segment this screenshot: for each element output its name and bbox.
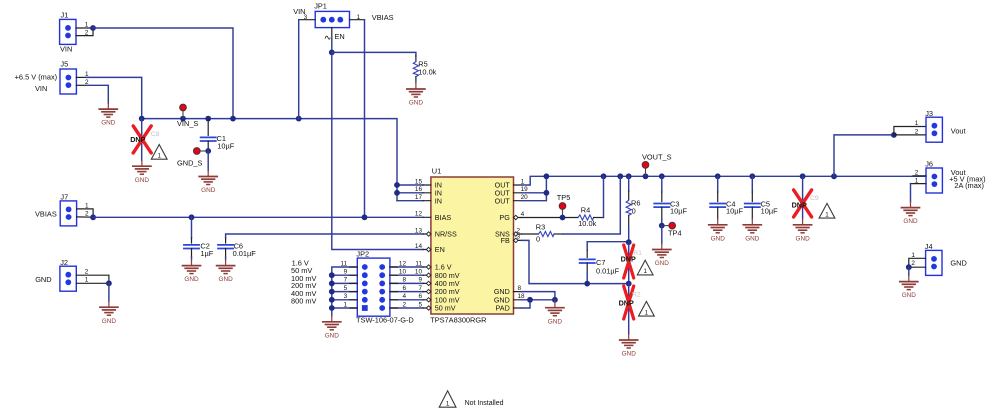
svg-text:GND: GND — [35, 275, 51, 284]
node PG/TP5 junction — [560, 215, 566, 221]
connector J7 — [35, 193, 89, 226]
capacitor C4 — [710, 176, 743, 219]
svg-text:DNP: DNP — [619, 298, 634, 307]
node J2 ground junction — [106, 280, 112, 286]
test point TP4 — [665, 222, 682, 237]
ground at C3 — [653, 244, 671, 268]
svg-text:DNP: DNP — [130, 135, 145, 144]
resistor R5 — [413, 59, 436, 76]
wire J4 pins to ground junction — [909, 258, 926, 267]
wire C1 to ground — [207, 151, 209, 171]
ground at C9 — [794, 219, 812, 243]
node IN pin 16 junction — [394, 190, 400, 196]
svg-text:0.01µF: 0.01µF — [233, 249, 257, 258]
resistor R4 — [578, 205, 597, 227]
ground at C1 — [199, 171, 217, 195]
wire JP1 pin3 to input rail — [299, 19, 316, 21]
ground at J5 pin2 — [99, 103, 117, 127]
node OUT19 junction — [544, 190, 550, 196]
wire J7 pins to BIAS junction — [77, 209, 94, 217]
node rail/J1 junction — [230, 116, 236, 122]
wire J6 pin1 to ground — [911, 183, 927, 185]
svg-text:18: 18 — [518, 293, 526, 300]
test point GND_S — [177, 148, 205, 168]
svg-text:2: 2 — [402, 301, 406, 308]
svg-text:8: 8 — [518, 285, 522, 292]
DNP X over R2 — [624, 286, 634, 319]
svg-text:J5: J5 — [60, 59, 68, 68]
wire input rail VIN — [142, 119, 397, 201]
svg-text:6: 6 — [418, 293, 422, 300]
svg-text:8: 8 — [402, 277, 406, 284]
svg-text:2: 2 — [85, 211, 89, 218]
svg-text:R2: R2 — [632, 291, 641, 298]
capacitor C5 — [745, 176, 778, 219]
svg-text:TP5: TP5 — [557, 193, 571, 202]
wire R5 to ground — [415, 77, 417, 83]
ground at J4 — [900, 276, 918, 300]
svg-text:PG: PG — [499, 213, 510, 222]
svg-text:7: 7 — [344, 277, 348, 284]
node rail/VIN_S junction — [180, 116, 186, 122]
wire PG line — [522, 217, 579, 219]
node J4 ground junction — [906, 264, 912, 270]
node C3/TP4 junction — [659, 223, 665, 229]
svg-text:R4: R4 — [581, 205, 590, 214]
svg-text:1: 1 — [344, 301, 348, 308]
svg-text:VBIAS: VBIAS — [35, 209, 57, 218]
op-amp U1 TPS7A8300RGR body — [430, 166, 513, 324]
svg-text:R1: R1 — [633, 250, 642, 257]
svg-text:NR/SS: NR/SS — [435, 230, 457, 239]
JP2 left pin numbers — [341, 260, 348, 308]
svg-text:OUT: OUT — [495, 196, 511, 205]
wire BIAS line to IC pin 12 — [93, 216, 423, 218]
svg-text:FB: FB — [501, 236, 510, 245]
svg-text:J3: J3 — [925, 109, 933, 118]
wire rail drop to U1 IN pins — [397, 185, 423, 201]
svg-text:10.0k: 10.0k — [418, 67, 436, 76]
node BIAS/C2 junction — [189, 214, 195, 220]
svg-text:C8: C8 — [151, 131, 160, 138]
node rail junctions — [544, 173, 837, 179]
svg-text:Vout: Vout — [951, 126, 966, 135]
svg-text:15: 15 — [415, 178, 423, 185]
header JP2 — [356, 249, 414, 324]
connector J3 — [915, 109, 966, 142]
svg-text:5: 5 — [418, 301, 422, 308]
svg-text:DNP: DNP — [792, 200, 807, 209]
svg-text:12: 12 — [415, 211, 423, 218]
svg-text:0: 0 — [632, 207, 636, 216]
wire NR/SS line from C6 to IC pin 13 — [226, 234, 423, 238]
node C1/GND_S junction — [205, 148, 211, 154]
svg-text:TSW-106-07-G-D: TSW-106-07-G-D — [356, 316, 414, 325]
ground at J6 — [902, 202, 920, 226]
U1 right pin names — [494, 181, 511, 313]
wire U1 GND pin18 — [522, 299, 555, 301]
wire J5 pin2 to ground — [76, 85, 108, 103]
svg-text:J6: J6 — [925, 160, 933, 169]
svg-text:9: 9 — [418, 277, 422, 284]
node rail/JP1 junction — [296, 116, 302, 122]
svg-text:1: 1 — [915, 120, 919, 127]
svg-text:VOUT_S: VOUT_S — [642, 153, 672, 162]
not-installed triangle at C9 — [819, 203, 835, 218]
svg-text:2A (max): 2A (max) — [954, 181, 984, 190]
ground at C2 — [183, 260, 201, 284]
svg-text:10µF: 10µF — [761, 207, 778, 216]
svg-text:10: 10 — [399, 269, 407, 276]
svg-text:J1: J1 — [61, 11, 69, 20]
svg-text:VIN: VIN — [60, 44, 72, 53]
resistor R2 (DNP) wire — [628, 284, 630, 334]
ground at JP2 — [323, 316, 341, 340]
wire JP1 pin1 (VBIAS) down to BIAS line — [350, 19, 365, 21]
svg-text:10µF: 10µF — [217, 141, 234, 150]
svg-text:IN: IN — [435, 196, 442, 205]
node rail/C8 junction — [139, 116, 145, 122]
connector J4 — [911, 242, 966, 275]
svg-text:17: 17 — [415, 194, 423, 201]
svg-text:14: 14 — [415, 243, 423, 250]
svg-text:20: 20 — [521, 194, 529, 201]
svg-text:1µF: 1µF — [200, 249, 213, 258]
wire U1 PAD riser — [522, 300, 531, 308]
svg-text:11: 11 — [341, 260, 348, 267]
svg-text:0.01µF: 0.01µF — [596, 266, 620, 275]
ground at C6 — [217, 260, 235, 284]
node EN/R5 junction — [329, 50, 335, 56]
node J7 output junction — [90, 214, 96, 220]
capacitor C3 — [654, 176, 687, 225]
ground at U1 — [546, 302, 564, 326]
wire J5 pin1 to rail — [76, 77, 141, 118]
svg-text:J4: J4 — [925, 242, 933, 251]
wire OUT pin1 to output rail — [522, 176, 927, 185]
svg-text:EN: EN — [435, 245, 445, 254]
resistor R3 — [536, 223, 554, 244]
wire R4 to rail — [594, 217, 604, 219]
U1 right pin stubs — [514, 185, 522, 308]
DNP X over C8 — [133, 126, 151, 153]
svg-text:13: 13 — [415, 227, 423, 234]
wire EN junction to R5 — [332, 52, 416, 56]
capacitor C6 — [218, 242, 256, 260]
wire SNS stub to R3 — [522, 233, 539, 235]
svg-text:PAD: PAD — [496, 304, 510, 313]
jumper JP1 — [293, 2, 393, 41]
wire J6 pin2 stub — [913, 175, 926, 177]
svg-text:J7: J7 — [60, 193, 68, 202]
node J1 output junction — [90, 25, 96, 31]
capacitor C8 (DNP) wire — [141, 119, 143, 161]
svg-text:9: 9 — [344, 269, 348, 276]
ground at R5 — [407, 83, 425, 107]
node R6/R1 junction — [626, 239, 632, 245]
connector J6 — [915, 160, 986, 193]
svg-text:EN: EN — [335, 32, 345, 41]
node R1/R2/FB junction — [626, 281, 632, 287]
svg-text:10: 10 — [415, 269, 423, 276]
svg-text:GND_S: GND_S — [177, 158, 203, 167]
wire EN vertical to IC pin 14 — [332, 52, 423, 249]
svg-text:+6.5 V (max): +6.5 V (max) — [15, 73, 58, 82]
svg-text:C9: C9 — [810, 195, 819, 202]
wire to IC ground — [554, 300, 556, 302]
node IN pin 15 junction — [394, 182, 400, 188]
svg-text:BIAS: BIAS — [435, 213, 452, 222]
U1 left pin names — [435, 181, 460, 313]
svg-text:6: 6 — [402, 285, 406, 292]
ground at J2 — [100, 301, 118, 325]
resistor R1 (DNP) wire — [628, 242, 630, 283]
capacitor C9 (DNP) wire — [802, 176, 804, 219]
U1 left pin stubs — [423, 185, 431, 308]
svg-text:Not Installed: Not Installed — [465, 400, 504, 407]
svg-text:10µF: 10µF — [726, 207, 743, 216]
resistor R6 — [626, 176, 640, 242]
U1 right pin numbers — [517, 178, 529, 300]
svg-text:U1: U1 — [432, 166, 441, 175]
wire JP2 left pins to common vertical — [332, 267, 358, 316]
not-installed triangle at R1 — [637, 260, 653, 275]
ground at C4 — [709, 219, 727, 243]
wire U1 GND pin8 — [522, 292, 555, 300]
svg-text:2: 2 — [915, 128, 919, 135]
svg-text:10µF: 10µF — [670, 207, 687, 216]
not-installed triangle at C8 — [151, 145, 167, 160]
svg-text:VIN_S: VIN_S — [177, 119, 198, 128]
capacitor C1 — [201, 119, 235, 151]
svg-text:4: 4 — [402, 293, 406, 300]
test point VOUT_S — [642, 153, 672, 176]
not-installed legend triangle — [439, 391, 456, 408]
wire J4 to ground — [908, 267, 910, 275]
wire J2 to ground — [108, 283, 110, 301]
svg-text:1: 1 — [446, 400, 450, 407]
wire J3 branch — [834, 135, 894, 176]
DNP X over R1 — [624, 245, 634, 278]
svg-text:3: 3 — [344, 293, 348, 300]
capacitor C2 — [184, 217, 214, 259]
svg-text:19: 19 — [521, 186, 529, 193]
DNP X over C9 — [794, 190, 812, 217]
JP2 voltage select labels — [291, 259, 317, 306]
node PAD/GND18 junction — [527, 297, 533, 303]
svg-text:12: 12 — [399, 260, 407, 267]
ground at C5 — [743, 219, 761, 243]
svg-text:10.0k: 10.0k — [578, 219, 596, 228]
svg-text:11: 11 — [415, 260, 422, 267]
wire J1 to input rail — [93, 28, 233, 119]
wire R3 to rail (SNS) — [554, 233, 563, 235]
svg-text:GND: GND — [950, 258, 966, 267]
ground at C8 — [133, 160, 151, 184]
svg-text:4: 4 — [521, 211, 525, 218]
svg-text:VBIAS: VBIAS — [372, 13, 394, 22]
svg-text:1: 1 — [85, 276, 89, 283]
svg-text:R3: R3 — [536, 223, 545, 232]
svg-text:TP4: TP4 — [668, 228, 682, 237]
node J3 junction — [891, 132, 897, 138]
U1 left pin numbers — [415, 178, 423, 308]
svg-text:800 mV: 800 mV — [291, 296, 317, 305]
svg-text:J2: J2 — [60, 258, 68, 267]
connector J2 — [35, 258, 89, 291]
svg-text:7: 7 — [418, 285, 422, 292]
wire FB to divider midpoint — [522, 240, 629, 283]
svg-text:2: 2 — [85, 268, 89, 275]
svg-text:5: 5 — [344, 285, 348, 292]
connector J1 — [60, 11, 89, 54]
svg-text:0: 0 — [536, 235, 540, 244]
node BIAS/VBIAS junction — [362, 214, 368, 220]
svg-text:50 mV: 50 mV — [435, 304, 456, 313]
svg-text:JP1: JP1 — [314, 2, 327, 11]
wire J3 pins — [894, 127, 926, 135]
U1 pin direction glyphs — [426, 215, 518, 310]
not-installed triangle at R2 — [639, 301, 655, 316]
connector J5 — [15, 59, 89, 94]
svg-text:2: 2 — [911, 260, 915, 267]
ground at R2 — [620, 334, 638, 358]
node GND8/GND18 junction — [552, 297, 558, 303]
node C7/FB junction — [584, 281, 590, 287]
wire JP1 pin2 (EN) down — [331, 28, 333, 40]
node rail/C1 junction — [205, 116, 211, 122]
svg-text:TPS7A8300RGR: TPS7A8300RGR — [430, 316, 486, 325]
wire C3 to ground — [661, 226, 663, 244]
node JP2 common junctions — [329, 272, 335, 311]
svg-text:16: 16 — [415, 186, 423, 193]
wire J1 pin1/pin2 stubs to junction — [76, 28, 93, 36]
svg-text:VIN: VIN — [35, 84, 47, 93]
capacitor C7 — [580, 242, 629, 284]
wire J2 pins to ground junction — [76, 275, 109, 283]
svg-text:JP2: JP2 — [356, 249, 369, 258]
test point VIN_S — [177, 104, 198, 128]
JP2 right pin numbers — [399, 260, 407, 308]
wire JP2 right pins to IC — [390, 267, 423, 308]
svg-text:1: 1 — [521, 178, 525, 185]
wire OUT pins 19/20 riser — [522, 176, 547, 200]
test point TP5 — [557, 193, 571, 216]
